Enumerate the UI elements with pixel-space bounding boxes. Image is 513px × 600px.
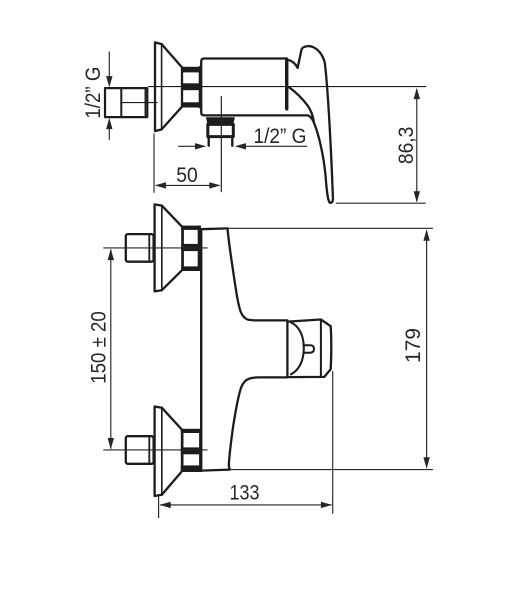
leader line outlet thread right (245, 145, 307, 147)
lower inlet centerline (103, 449, 207, 451)
body bottom edge (plan view) (202, 470, 230, 471)
union nut threads (side view) (182, 67, 200, 108)
leader line outlet thread left (178, 145, 196, 147)
cartridge cap arc (289, 60, 297, 68)
lower escutcheon flange (155, 407, 182, 497)
arrowhead outlet thread left (195, 143, 206, 149)
escutcheon flange (side view) (155, 42, 182, 131)
svg-text:179: 179 (402, 328, 425, 363)
dim line 150 +/- 20 (110, 250, 112, 449)
arrowhead 179 bottom (423, 457, 429, 468)
wall supply nipple (side view) (105, 88, 147, 117)
arrowhead 150 top (108, 249, 114, 260)
body lower profile curve (229, 377, 288, 469)
arrowhead 150 bottom (108, 438, 114, 449)
arrowhead 179 top (423, 229, 429, 240)
arrowhead 50 right (209, 182, 220, 188)
lower hex nut (126, 436, 154, 464)
arrowhead 50 left (155, 182, 166, 188)
arrowhead 86,3 top (414, 88, 420, 99)
arrowhead 133 right (321, 502, 332, 508)
lever handle blade (side view) (298, 46, 333, 203)
arrowhead nipple bottom (106, 118, 112, 129)
dim line 50 (156, 184, 220, 186)
dim line nipple diameter (lower segment) (108, 129, 110, 140)
arrowhead 86,3 bottom (414, 191, 420, 202)
extension line knob edge (332, 371, 334, 514)
lever inner edge curve (289, 87, 314, 123)
extension line body top (228, 227, 433, 229)
nipple centerline (121, 102, 158, 104)
body top edge (plan view) (201, 227, 228, 230)
svg-text:1/2” G: 1/2” G (82, 67, 105, 119)
extension line flange bottom (158, 497, 160, 519)
dim line nipple diameter (upper segment) (108, 52, 110, 77)
lower union nut threads (plan view) (181, 429, 202, 472)
svg-text:50: 50 (176, 164, 198, 187)
svg-text:133: 133 (230, 482, 260, 505)
extension line flange edge (153, 134, 155, 193)
dim line 86,3 (416, 90, 418, 201)
dim line 133 (160, 504, 332, 506)
svg-text:1/2” G: 1/2” G (254, 125, 307, 148)
body wall edge (plan view) (200, 229, 202, 470)
arrowhead 133 left (159, 502, 170, 508)
dim line 179 (426, 231, 428, 468)
body axis centerline (149, 86, 426, 88)
upper inlet centerline (103, 247, 207, 249)
body upper profile curve (228, 229, 288, 321)
extension line lever tip (336, 202, 426, 204)
upper hex nut (126, 234, 154, 262)
arrowhead outlet thread right (235, 143, 246, 149)
lever knob end cap (plan view) (287, 320, 331, 378)
shower hose outlet (side view) (206, 117, 235, 146)
extension line body bottom (230, 469, 433, 471)
upper union nut threads (plan view) (181, 226, 201, 271)
outlet centerline (220, 97, 222, 192)
svg-text:150 ± 20: 150 ± 20 (88, 311, 111, 384)
svg-text:86,3: 86,3 (395, 127, 418, 165)
arrowhead nipple top (106, 76, 112, 87)
mixer body (side view) (201, 59, 313, 122)
upper escutcheon flange (155, 204, 182, 291)
body front edge (thick) (285, 59, 288, 109)
